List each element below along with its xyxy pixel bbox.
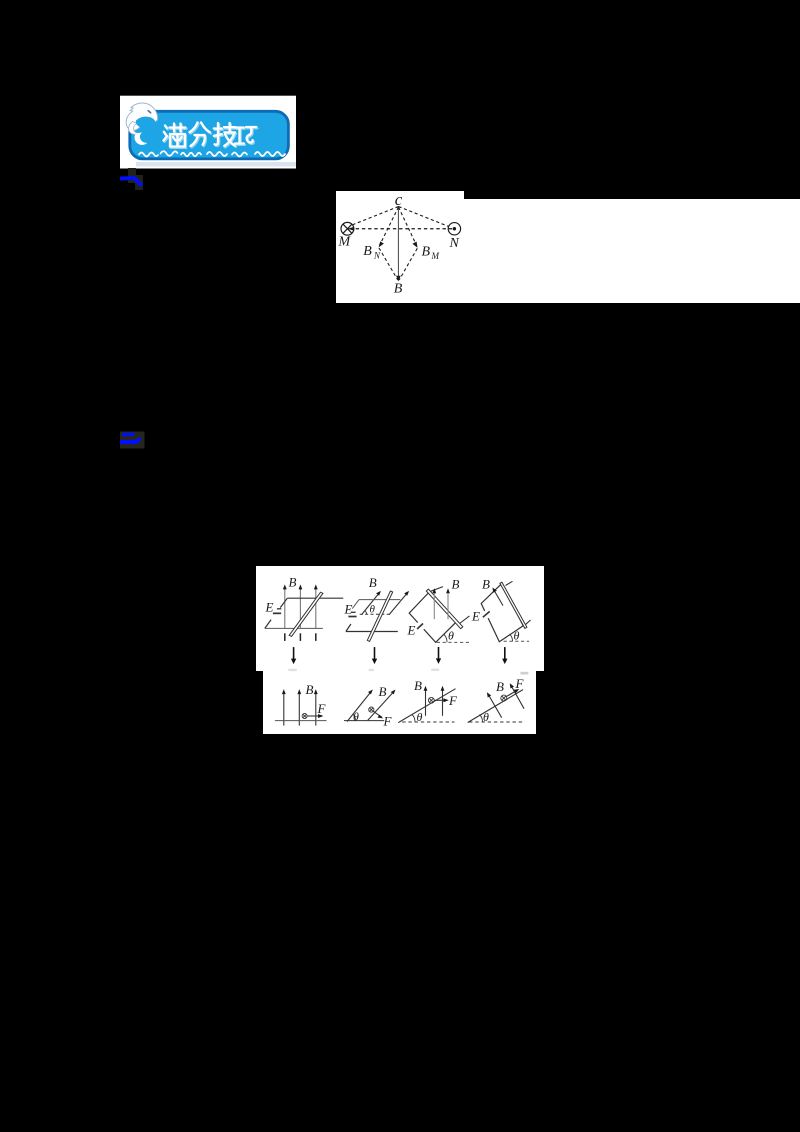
svg-text:E: E: [471, 609, 480, 624]
dashed ground: [436, 642, 470, 644]
svg-text:B: B: [378, 684, 386, 699]
svg-text:M: M: [338, 235, 352, 250]
field arrows B slanted x2: [347, 691, 372, 722]
svg-text:F: F: [448, 693, 458, 708]
svg-text:B: B: [451, 577, 459, 592]
svg-text:θ: θ: [448, 629, 454, 643]
field arrows B vertical x2: [424, 689, 426, 716]
blue bullet glyph 1: [118, 166, 148, 190]
current dot: [428, 698, 434, 704]
force F arrow: [373, 712, 382, 718]
badge title 满分技巧 drawn strokes: white layer: [164, 123, 257, 147]
dolphin chest wave (blue carve): [136, 117, 156, 128]
field arrows B slanted x2: [361, 592, 379, 615]
angle arc: [352, 714, 355, 721]
wire dashed c to N: [399, 207, 449, 227]
inclined frame: [409, 592, 457, 643]
dashed ground: [469, 721, 522, 723]
dolphin body: [126, 103, 157, 130]
svg-text:E: E: [264, 600, 273, 615]
field arrows B vertical x3: [283, 693, 315, 726]
rod (slanted, double line): [289, 593, 323, 637]
svg-text:F: F: [316, 701, 326, 716]
badge title 满分技巧 drawn strokes: shadow layer: [165, 124, 258, 148]
current dot: [500, 695, 506, 701]
char 技: [214, 123, 236, 146]
angle arc: [509, 634, 512, 641]
battery gap cover: [480, 609, 492, 620]
vector B resultant (solid, c to B): [397, 207, 399, 280]
diagram 1 figure: [336, 191, 466, 303]
badge 满分技巧: [119, 95, 297, 170]
rail tick right: [459, 616, 469, 624]
rail plane parallelogram: [264, 599, 343, 629]
seam smudges: [288, 669, 528, 675]
dashed ground: [503, 641, 528, 643]
inclined frame: [481, 584, 523, 642]
big figure white row1: [256, 566, 545, 671]
char 满: [164, 124, 186, 147]
svg-text:θ: θ: [483, 710, 489, 724]
svg-text:E: E: [406, 623, 415, 638]
rod: [367, 591, 392, 641]
badge waves: [139, 151, 285, 156]
svg-text:B: B: [414, 678, 422, 693]
svg-text:B: B: [496, 679, 504, 694]
field arrow B: [493, 589, 503, 606]
svg-text:B: B: [368, 575, 376, 590]
force F arrow: [506, 690, 518, 697]
dolphin eye: [148, 111, 150, 113]
conductor M (into page): [341, 222, 354, 235]
force F arrow: [307, 715, 321, 717]
big figure white row2: [263, 671, 536, 734]
field arrows B vertical x2: [433, 592, 435, 620]
field arrows B vertical x3: [284, 588, 315, 629]
svg-text:F: F: [382, 714, 392, 729]
svg-text:B: B: [288, 575, 296, 590]
svg-text:θ: θ: [353, 710, 359, 724]
char 分: [190, 123, 210, 147]
angle arc: [443, 634, 447, 642]
wire dashed c to M: [353, 207, 399, 225]
battery E marks: [351, 612, 355, 614]
theta dashed reference: [359, 614, 389, 616]
rail tick bottom: [525, 620, 530, 624]
dashed ground: [402, 721, 454, 723]
svg-text:N: N: [449, 236, 460, 251]
diagram 1 white band: [336, 199, 800, 304]
conductor N (out of page): [448, 223, 460, 235]
svg-text:B: B: [394, 282, 403, 297]
badge shadow band: [136, 162, 296, 167]
battery gap cover: [414, 620, 427, 633]
dolphin: [126, 103, 157, 145]
battery E marks: [277, 608, 282, 610]
incline: [467, 690, 522, 723]
angle arc: [479, 715, 482, 723]
rail plane: [352, 600, 400, 609]
char 巧: [235, 127, 256, 144]
blue bullet glyph 2: [119, 430, 147, 450]
vector B_N dashed arrow: [380, 207, 399, 246]
dolphin splash swirl: [135, 132, 148, 145]
wire dashed B_N to B: [379, 248, 398, 280]
current dot circle-x: [302, 714, 307, 719]
wire dashed B_M to B: [399, 248, 417, 280]
rail tick top: [505, 582, 512, 586]
current dot: [368, 707, 373, 712]
wire dashed M to N horizontal: [350, 228, 453, 230]
badge blue rounded rect: [130, 111, 289, 159]
svg-text:F: F: [514, 676, 524, 691]
svg-text:θ: θ: [416, 710, 422, 724]
svg-text:B: B: [363, 244, 372, 259]
field arrows B perp x2: [488, 694, 502, 718]
ground line: [344, 720, 384, 722]
big figure drawings: [256, 566, 545, 734]
force F arrow: [434, 700, 446, 702]
angle arc: [412, 715, 415, 723]
vector B_M dashed arrow: [399, 207, 417, 246]
ground line: [275, 720, 327, 722]
rod: [500, 583, 527, 629]
diagram 1 white notch: [336, 191, 464, 201]
incline: [398, 689, 455, 723]
rail tick top: [429, 587, 443, 592]
svg-text:θ: θ: [369, 604, 375, 616]
svg-text:θ: θ: [513, 629, 519, 643]
svg-text:B: B: [482, 577, 490, 592]
dolphin tail curl: [129, 122, 138, 135]
svg-text:B: B: [422, 245, 431, 260]
svg-text:E: E: [343, 602, 352, 617]
svg-text:N: N: [373, 251, 381, 261]
svg-text:M: M: [431, 251, 440, 261]
transform arrows row: [293, 647, 504, 661]
svg-text:B: B: [305, 682, 313, 697]
badge white backing: [120, 96, 296, 169]
rod: [426, 589, 463, 629]
